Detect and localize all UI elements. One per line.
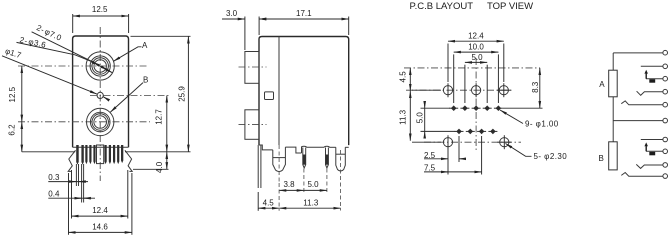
- terminal B4: [663, 174, 668, 179]
- jack B horizontal centerline: [18, 121, 150, 123]
- svg-text:0.3: 0.3: [48, 173, 60, 182]
- svg-text:4.5: 4.5: [263, 198, 275, 207]
- dimension 7.5 (pcb bottom left): [481, 136, 483, 175]
- dimension 12.4 (pcb): [447, 44, 449, 83]
- insulator block A: [649, 79, 655, 83]
- hole bottom left (phi2.30): [443, 135, 452, 149]
- bottom edge between pins: [306, 146, 324, 148]
- hole row1 left (phi2.30): [443, 83, 452, 97]
- side view inner face line: [278, 37, 280, 146]
- terminal B3: [663, 163, 668, 168]
- jack B rings: [87, 108, 114, 135]
- dimension 12.5 (top width): [73, 15, 129, 17]
- svg-text:11.3: 11.3: [399, 109, 408, 125]
- dimension 6.2 (left): [21, 122, 23, 152]
- wire A2: [641, 65, 663, 67]
- dimension 11.3 (side view): [279, 207, 341, 209]
- terminal pin 1 (side view): [302, 146, 307, 153]
- extension bottom row left: [412, 141, 441, 143]
- svg-text:5- φ2.30: 5- φ2.30: [534, 152, 568, 161]
- svg-text:12.5: 12.5: [92, 5, 108, 14]
- svg-text:TOP VIEW: TOP VIEW: [487, 1, 533, 12]
- wire B1: [641, 139, 663, 141]
- dimension 11.3 (pcb left): [409, 91, 411, 141]
- dimension 25.9 (right): [131, 35, 191, 37]
- leader phi1.7 to small hole: [2, 56, 97, 94]
- pin front centerline: [278, 145, 280, 183]
- step plate next to front pin: [285, 147, 301, 153]
- terminal A5: [663, 102, 668, 107]
- vertical centerline of front view: [99, 27, 101, 181]
- bus wire vertical: [612, 53, 614, 142]
- dimension 12.5 (left, jack spacing): [21, 66, 23, 122]
- front view body outline: [73, 36, 129, 147]
- jack pin front (bullet): [273, 147, 286, 172]
- dimension 3.8: [279, 189, 304, 191]
- terminal pin 2 (side view): [324, 146, 329, 147]
- dimension 10.0 (pcb): [453, 54, 455, 103]
- svg-text:3.8: 3.8: [283, 180, 295, 189]
- wire B2 tip contact: [646, 150, 663, 152]
- svg-text:5.0: 5.0: [307, 180, 319, 189]
- front shield pins hanging (side view): [258, 145, 261, 188]
- svg-text:11.3: 11.3: [303, 198, 319, 207]
- insulator block B: [649, 152, 655, 156]
- row3 small holes phi1.00 (4x): [456, 129, 495, 135]
- long pin 0.4 (front view): [82, 164, 84, 203]
- bottom edge right corner: [345, 146, 348, 148]
- tab top centerline: [239, 66, 267, 68]
- side view bottom ledge left: [259, 145, 273, 150]
- vertical centerline middle column: [475, 58, 477, 152]
- wire A5 switch: [621, 101, 663, 105]
- terminal A1: [663, 50, 668, 55]
- terminal A3: [663, 76, 668, 81]
- svg-text:7.5: 7.5: [424, 163, 436, 172]
- hole row1 center (phi2.30): [472, 83, 481, 97]
- svg-text:3.0: 3.0: [226, 9, 238, 18]
- contact arrow B: [644, 142, 648, 151]
- dimension 12.4 (bottom): [71, 170, 73, 219]
- extension row2 right: [503, 107, 543, 109]
- pin bottom extension line (right): [133, 168, 169, 170]
- seating plane extension line: [22, 151, 75, 153]
- mounting tab top: [245, 52, 259, 84]
- dimension 2.5 (pcb bottom left): [447, 148, 449, 175]
- wire A1: [613, 52, 663, 54]
- side view body outline: [259, 37, 349, 146]
- svg-text:12.5: 12.5: [8, 86, 17, 102]
- dimension 17.1: [259, 18, 349, 20]
- hole B horizontal centerline / extension to 12.7 dim: [90, 95, 169, 97]
- jack body B: [609, 142, 618, 170]
- front view body bottom edge: [73, 146, 129, 148]
- extension row3 left: [421, 130, 456, 132]
- svg-text:9- φ1.00: 9- φ1.00: [525, 119, 559, 128]
- row3 tick marks: [455, 130, 498, 132]
- terminal A2: [663, 64, 668, 69]
- mounting tab bottom: [245, 110, 259, 140]
- row2 small holes phi1.00 (5x): [451, 105, 501, 111]
- label 9-phi1.00 with leader: [500, 110, 523, 124]
- svg-text:12.7: 12.7: [155, 109, 164, 125]
- wire A3 tip contact: [646, 78, 663, 80]
- svg-text:0.4: 0.4: [48, 190, 60, 199]
- svg-text:12.4: 12.4: [92, 206, 108, 215]
- dimension 5.0 (pcb top): [464, 65, 466, 103]
- svg-text:B: B: [599, 154, 604, 163]
- comb teeth row (shield fingers): [76, 145, 123, 165]
- hole row1 right (phi2.30): [497, 83, 511, 97]
- contact arrow A: [644, 70, 648, 79]
- jack A horizontal centerline: [18, 65, 148, 67]
- small hole phi1.7: [97, 92, 103, 98]
- dimension 4.0 (right): [166, 152, 168, 170]
- leader 2-phi3.6 with diameter line across jack A inner ring: [17, 42, 93, 62]
- svg-text:10.0: 10.0: [468, 42, 484, 51]
- svg-text:6.2: 6.2: [8, 124, 17, 136]
- svg-text:5.0: 5.0: [415, 112, 424, 124]
- dimension 5.0 (pcb left vertical): [424, 101, 426, 108]
- svg-text:12.4: 12.4: [468, 31, 484, 40]
- square hole: [265, 92, 274, 100]
- jack pin rear (bullet): [336, 147, 346, 171]
- dimension 5.0 (side view): [304, 189, 327, 191]
- hole bottom right (phi2.30): [497, 135, 511, 149]
- svg-text:17.1: 17.1: [296, 9, 312, 18]
- leader 2-phi7.0 with diameter line across jack A: [32, 32, 88, 60]
- terminal A6: [663, 118, 668, 123]
- wire A6 common: [613, 120, 663, 122]
- dimension 14.6 (bottom): [68, 173, 70, 235]
- extension line pin front centerline to dims: [278, 183, 280, 211]
- svg-text:A: A: [599, 80, 605, 89]
- wire A4 switch: [637, 91, 663, 95]
- svg-text:A: A: [142, 41, 148, 50]
- dimension 4.5 (pcb left): [409, 68, 411, 91]
- extension row1 left: [412, 89, 441, 91]
- svg-text:B: B: [143, 76, 148, 85]
- pin 1 centerline: [303, 169, 305, 193]
- rear pin centerline: [340, 150, 342, 211]
- svg-text:14.6: 14.6: [92, 222, 108, 231]
- terminal A4: [663, 89, 668, 94]
- pcb reference top centerline: [404, 67, 540, 69]
- center post of comb: [97, 145, 104, 164]
- svg-text:P.C.B LAYOUT: P.C.B LAYOUT: [410, 1, 474, 12]
- row1 horizontal centerline: [406, 89, 512, 91]
- long pin 0.3 (front view): [76, 164, 78, 186]
- dimension 8.3 (pcb right): [539, 68, 541, 108]
- jack body A: [609, 70, 618, 97]
- pin 2 centerline: [326, 169, 328, 193]
- tab bottom centerline: [239, 124, 267, 126]
- dimension 4.5: [257, 192, 259, 211]
- wire B4 switch: [621, 173, 663, 177]
- right skirt zigzag: [125, 150, 132, 171]
- bottom edge to right pin: [329, 146, 336, 148]
- row2 tick marks: [449, 107, 503, 109]
- jack A rings: [86, 52, 114, 80]
- terminal B1: [663, 137, 668, 142]
- bottom row horizontal centerline: [424, 141, 521, 143]
- svg-text:4.0: 4.0: [155, 161, 164, 173]
- extension row2 left: [421, 107, 451, 109]
- dimension 12.7 (right): [166, 96, 168, 152]
- label 5-phi2.30 with leader: [506, 144, 532, 157]
- left skirt zigzag: [68, 150, 75, 171]
- svg-text:4.5: 4.5: [399, 71, 408, 83]
- svg-text:25.9: 25.9: [178, 86, 187, 102]
- terminal B2: [663, 149, 668, 154]
- svg-text:8.3: 8.3: [531, 81, 540, 93]
- svg-text:5.0: 5.0: [471, 53, 483, 62]
- wire B3 switch: [636, 164, 663, 168]
